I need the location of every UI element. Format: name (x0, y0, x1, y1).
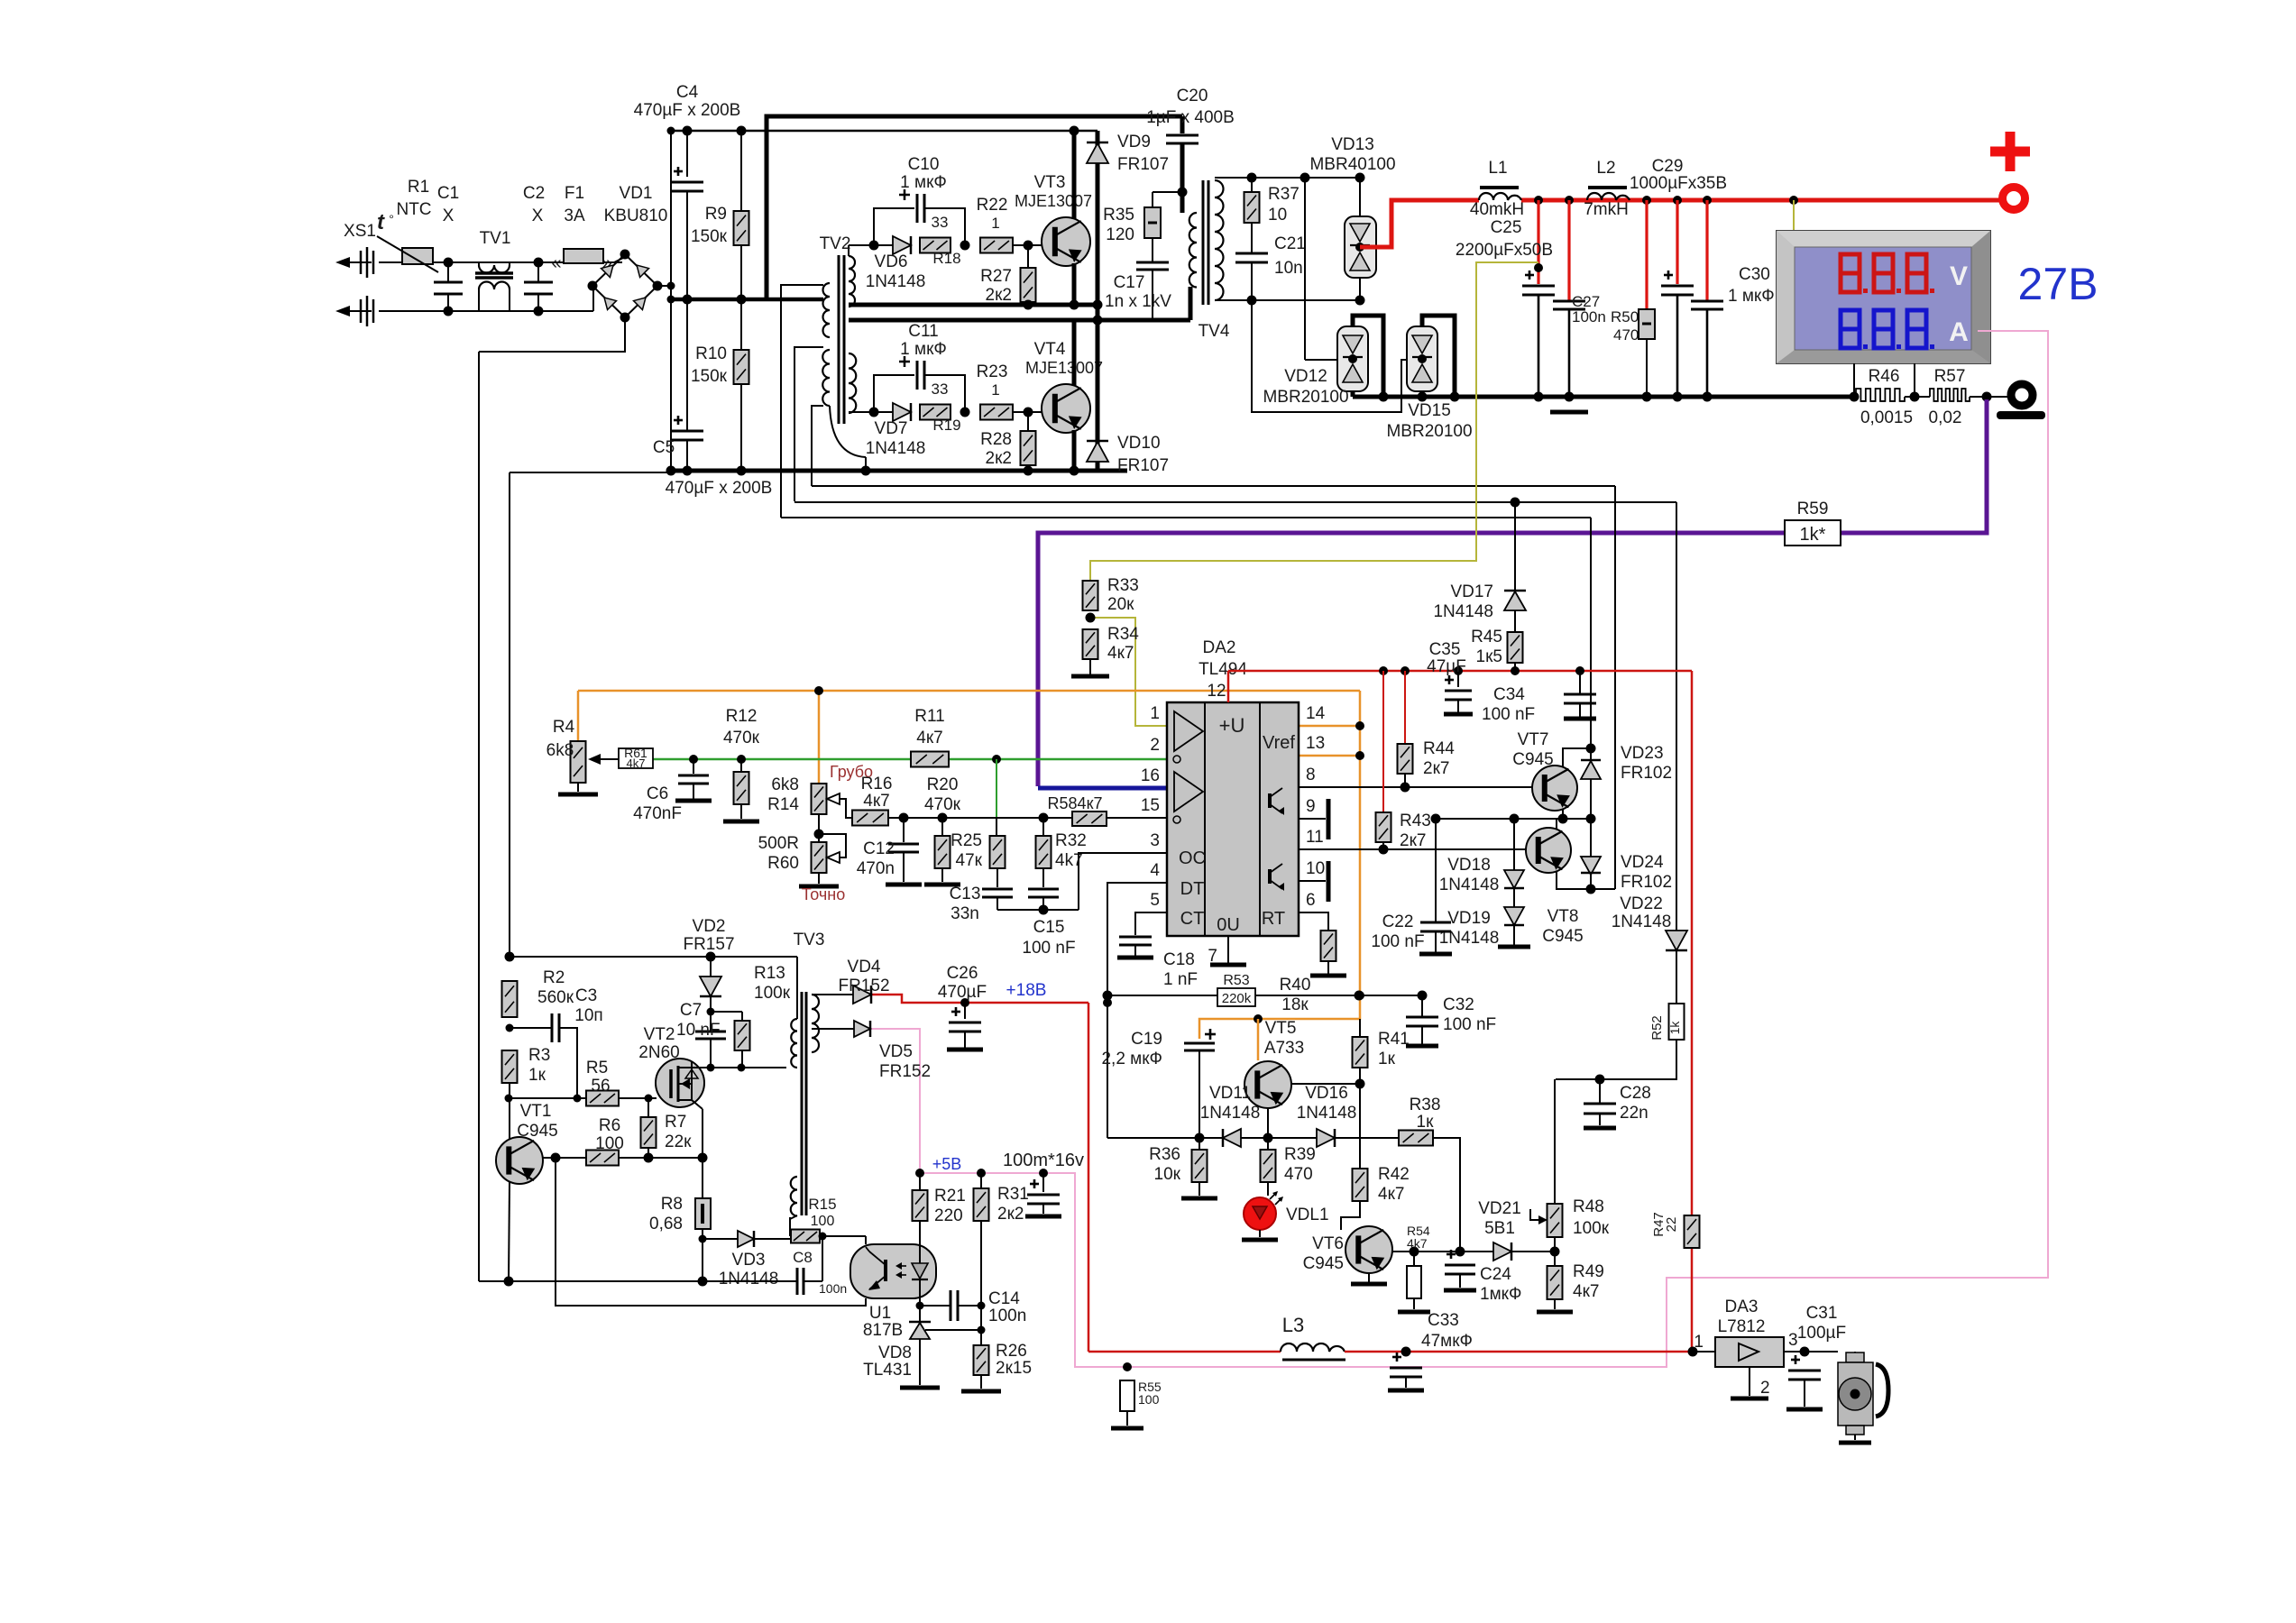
svg-text:XS1: XS1 (344, 222, 376, 241)
svg-text:R18: R18 (932, 250, 960, 267)
svg-text:VD9: VD9 (1117, 133, 1151, 151)
svg-text:100µF: 100µF (1797, 1324, 1846, 1343)
svg-text:C17: C17 (1114, 273, 1145, 292)
svg-text:1µF x 400B: 1µF x 400B (1146, 108, 1235, 127)
svg-text:C31: C31 (1806, 1304, 1838, 1323)
svg-text:R34: R34 (1107, 625, 1139, 644)
svg-text:220: 220 (934, 1206, 963, 1225)
svg-text:C18: C18 (1163, 950, 1195, 969)
svg-text:C20: C20 (1177, 87, 1208, 105)
svg-text:C13: C13 (950, 885, 981, 903)
svg-text:R59: R59 (1797, 500, 1829, 518)
svg-text:TV2: TV2 (820, 234, 851, 253)
svg-text:10к: 10к (1154, 1165, 1181, 1184)
svg-text:C3: C3 (575, 986, 597, 1005)
svg-text:TL431: TL431 (863, 1361, 912, 1380)
svg-text:C1: C1 (437, 184, 459, 203)
svg-text:R1: R1 (408, 178, 429, 197)
svg-text:VD6: VD6 (875, 252, 908, 271)
svg-text:R33: R33 (1107, 576, 1139, 595)
svg-text:R31: R31 (997, 1185, 1029, 1204)
svg-text:1: 1 (1694, 1333, 1704, 1352)
svg-text:A: A (1949, 317, 1969, 347)
svg-text:VD22: VD22 (1620, 894, 1663, 913)
svg-text:4: 4 (1150, 861, 1160, 880)
svg-text:R22: R22 (977, 196, 1008, 215)
svg-text:100n: 100n (988, 1307, 1026, 1325)
svg-text:4к7: 4к7 (916, 729, 942, 747)
svg-text:OC: OC (1179, 848, 1206, 868)
svg-text:R49: R49 (1573, 1262, 1604, 1281)
svg-text:100n: 100n (819, 1281, 847, 1296)
svg-text:1мкФ: 1мкФ (1480, 1285, 1521, 1304)
svg-text:R8: R8 (661, 1195, 683, 1214)
svg-text:R23: R23 (977, 362, 1008, 381)
svg-text:C19: C19 (1131, 1030, 1162, 1049)
svg-text:VD12: VD12 (1284, 367, 1327, 386)
svg-text:C4: C4 (676, 83, 699, 102)
svg-text:R37: R37 (1268, 185, 1300, 204)
svg-text:2: 2 (1760, 1379, 1770, 1398)
svg-text:1: 1 (991, 215, 999, 232)
svg-text:VD15: VD15 (1408, 401, 1451, 420)
svg-text:VD4: VD4 (848, 958, 881, 977)
svg-text:1к: 1к (1417, 1113, 1435, 1132)
svg-text:1 мкФ: 1 мкФ (900, 340, 947, 359)
svg-text:470: 470 (1613, 326, 1639, 344)
svg-text:4к7: 4к7 (1573, 1282, 1599, 1301)
svg-text:R4: R4 (553, 718, 575, 737)
svg-text:1N4148: 1N4148 (1297, 1104, 1357, 1123)
svg-text:VD1: VD1 (620, 184, 653, 203)
svg-text:Точно: Точно (802, 885, 846, 903)
svg-text:L3: L3 (1282, 1314, 1304, 1336)
svg-text:4к7: 4к7 (1378, 1185, 1404, 1204)
svg-text:C945: C945 (517, 1122, 557, 1141)
svg-text:14: 14 (1306, 704, 1326, 723)
svg-text:R20: R20 (927, 775, 959, 794)
svg-text:13: 13 (1306, 734, 1325, 753)
svg-text:1N4148: 1N4148 (866, 439, 926, 458)
svg-text:C945: C945 (1512, 750, 1553, 769)
svg-text:VT7: VT7 (1518, 730, 1549, 749)
svg-text:2к2: 2к2 (997, 1205, 1024, 1224)
svg-text:KBU810: KBU810 (604, 206, 668, 225)
svg-text:R26: R26 (996, 1342, 1027, 1361)
svg-text:18к: 18к (1281, 995, 1309, 1014)
svg-text:1N4148: 1N4148 (866, 272, 926, 291)
svg-text:R48: R48 (1573, 1197, 1604, 1216)
svg-text:C22: C22 (1382, 912, 1414, 931)
svg-text:DT: DT (1180, 879, 1205, 899)
svg-text:470n: 470n (857, 859, 895, 878)
svg-text:470: 470 (1284, 1165, 1313, 1184)
svg-text:6: 6 (1306, 891, 1316, 910)
svg-text:TL494: TL494 (1199, 660, 1247, 679)
svg-text:R10: R10 (695, 344, 727, 363)
svg-text:4к7: 4к7 (1107, 644, 1134, 663)
svg-text:100n: 100n (1572, 308, 1606, 326)
svg-text:DA3: DA3 (1725, 1297, 1759, 1316)
svg-text:C32: C32 (1443, 995, 1474, 1014)
svg-text:R39: R39 (1284, 1145, 1316, 1164)
svg-text:0,02: 0,02 (1929, 408, 1962, 427)
svg-text:MJE13007: MJE13007 (1015, 192, 1092, 210)
svg-text:Vref: Vref (1263, 733, 1295, 753)
svg-text:8: 8 (1306, 766, 1316, 784)
svg-text:22n: 22n (1620, 1104, 1649, 1123)
svg-text:FR157: FR157 (683, 935, 734, 954)
svg-text:FR102: FR102 (1621, 764, 1672, 783)
svg-text:R46: R46 (1869, 367, 1900, 386)
svg-text:VD24: VD24 (1621, 853, 1664, 872)
svg-text:VD19: VD19 (1447, 909, 1491, 928)
svg-text:R15: R15 (808, 1196, 836, 1213)
svg-text:150к: 150к (691, 227, 728, 246)
svg-text:817B: 817B (863, 1321, 903, 1340)
svg-text:15: 15 (1141, 796, 1160, 815)
svg-text:VD21: VD21 (1478, 1199, 1521, 1218)
svg-text:°: ° (389, 212, 394, 226)
svg-text:47к: 47к (956, 851, 983, 870)
svg-text:C2: C2 (523, 184, 545, 203)
svg-text:470к: 470к (723, 729, 760, 747)
svg-text:VT5: VT5 (1265, 1019, 1297, 1038)
svg-text:33: 33 (932, 381, 949, 398)
svg-text:12: 12 (1207, 682, 1226, 701)
svg-text:4k7: 4k7 (1407, 1236, 1428, 1251)
svg-text:1: 1 (1150, 704, 1160, 723)
svg-text:5: 5 (1150, 891, 1160, 910)
svg-text:VD2: VD2 (693, 917, 726, 936)
svg-text:+U: +U (1219, 714, 1245, 737)
svg-text:VD13: VD13 (1331, 135, 1374, 154)
svg-text:5B1: 5B1 (1484, 1219, 1515, 1238)
svg-text:33: 33 (932, 214, 949, 231)
svg-text:VT1: VT1 (520, 1102, 552, 1121)
svg-text:R42: R42 (1378, 1165, 1410, 1184)
svg-text:C14: C14 (988, 1289, 1020, 1308)
svg-text:27В: 27В (2018, 259, 2099, 309)
svg-text:VDL1: VDL1 (1286, 1206, 1329, 1224)
svg-text:CT: CT (1180, 909, 1205, 929)
svg-text:C6: C6 (647, 784, 668, 803)
svg-text:TV4: TV4 (1199, 322, 1230, 341)
svg-text:3: 3 (1150, 831, 1160, 850)
svg-text:2,2 мкФ: 2,2 мкФ (1101, 1050, 1162, 1068)
svg-text:560к: 560к (537, 988, 574, 1007)
svg-text:NTC: NTC (396, 200, 431, 219)
svg-text:R7: R7 (665, 1113, 686, 1132)
svg-text:R19: R19 (932, 417, 960, 434)
svg-text:1к: 1к (1378, 1050, 1396, 1068)
svg-text:2к15: 2к15 (996, 1359, 1032, 1378)
svg-text:100к: 100к (1573, 1219, 1610, 1238)
svg-text:R36: R36 (1149, 1145, 1180, 1164)
svg-text:FR102: FR102 (1621, 873, 1672, 892)
svg-text:1n x 1kV: 1n x 1kV (1105, 292, 1171, 311)
svg-text:VT8: VT8 (1548, 907, 1579, 926)
svg-text:C945: C945 (1303, 1254, 1344, 1273)
svg-text:+18B: +18B (1006, 981, 1047, 1000)
svg-text:FR152: FR152 (838, 977, 889, 995)
svg-text:1: 1 (991, 381, 999, 399)
svg-text:1 мкФ: 1 мкФ (1728, 287, 1775, 306)
svg-text:VT4: VT4 (1034, 340, 1066, 359)
svg-text:470µF x 200B: 470µF x 200B (634, 101, 741, 120)
svg-text:VD23: VD23 (1621, 744, 1664, 763)
svg-text:2: 2 (1150, 736, 1160, 755)
svg-text:4k7: 4k7 (627, 756, 646, 770)
svg-text:R35: R35 (1103, 206, 1134, 225)
svg-text:2к2: 2к2 (986, 449, 1012, 468)
svg-text:10n: 10n (1274, 259, 1303, 278)
svg-text:9: 9 (1306, 797, 1316, 816)
svg-text:R3: R3 (528, 1046, 550, 1065)
svg-text:R9: R9 (705, 205, 727, 224)
svg-text:R57: R57 (1934, 367, 1966, 386)
svg-text:C8: C8 (793, 1249, 813, 1266)
svg-text:1 мкФ: 1 мкФ (900, 173, 947, 192)
svg-text:FR107: FR107 (1117, 456, 1169, 475)
svg-text:R44: R44 (1423, 739, 1455, 758)
svg-text:0,0015: 0,0015 (1860, 408, 1913, 427)
svg-text:470µF: 470µF (938, 983, 987, 1002)
svg-text:3A: 3A (564, 206, 585, 225)
svg-text:6k8: 6k8 (546, 741, 574, 760)
svg-text:VT2: VT2 (644, 1025, 675, 1044)
svg-text:1N4148: 1N4148 (1200, 1104, 1261, 1123)
svg-text:4к7: 4к7 (863, 792, 889, 811)
svg-text:R41: R41 (1378, 1030, 1410, 1049)
svg-text:C30: C30 (1739, 265, 1770, 284)
svg-text:10 nF: 10 nF (676, 1021, 721, 1040)
svg-text:R38: R38 (1410, 1096, 1441, 1114)
svg-text:56: 56 (591, 1077, 610, 1096)
svg-text:100: 100 (595, 1134, 624, 1153)
svg-text:L1: L1 (1488, 159, 1507, 178)
svg-text:R11: R11 (914, 707, 944, 726)
svg-text:t: t (377, 210, 385, 234)
svg-text:100: 100 (1138, 1392, 1160, 1407)
svg-text:1k: 1k (1667, 1021, 1682, 1035)
svg-text:0,68: 0,68 (649, 1215, 683, 1233)
svg-text:22: 22 (1664, 1217, 1679, 1233)
svg-text:«: « (551, 253, 561, 273)
svg-text:0U: 0U (1217, 915, 1240, 935)
svg-text:C29: C29 (1652, 157, 1684, 176)
svg-text:VD8: VD8 (878, 1343, 912, 1362)
svg-text:1k*: 1k* (1800, 525, 1826, 545)
svg-text:R25: R25 (951, 831, 982, 850)
svg-text:100 nF: 100 nF (1482, 705, 1535, 724)
svg-text:R5: R5 (586, 1059, 608, 1077)
svg-text:C25: C25 (1491, 218, 1522, 237)
svg-text:R40: R40 (1280, 976, 1311, 995)
svg-text:2N60: 2N60 (638, 1043, 679, 1062)
svg-text:1 nF: 1 nF (1163, 970, 1198, 989)
svg-text:220k: 220k (1222, 991, 1252, 1006)
svg-text:C945: C945 (1542, 927, 1583, 946)
svg-text:1000µFx35B: 1000µFx35B (1630, 174, 1727, 193)
svg-text:47µF: 47µF (1427, 657, 1466, 676)
svg-text:33n: 33n (951, 904, 979, 923)
svg-text:1N4148: 1N4148 (1439, 876, 1500, 894)
svg-text:VD17: VD17 (1450, 582, 1493, 601)
svg-text:U1: U1 (869, 1304, 891, 1323)
svg-text:500R: 500R (758, 834, 799, 853)
svg-text:R50: R50 (1611, 308, 1639, 326)
svg-text:100 nF: 100 nF (1443, 1015, 1496, 1034)
svg-text:DA2: DA2 (1203, 638, 1236, 657)
svg-text:10п: 10п (574, 1006, 602, 1025)
svg-text:A733: A733 (1264, 1039, 1304, 1058)
svg-text:470nF: 470nF (633, 804, 682, 823)
svg-text:C33: C33 (1428, 1311, 1459, 1330)
svg-text:C24: C24 (1480, 1265, 1511, 1284)
svg-text:VD5: VD5 (879, 1042, 913, 1061)
svg-text:TV1: TV1 (480, 229, 511, 248)
svg-text:120: 120 (1106, 225, 1134, 244)
svg-text:1N4148: 1N4148 (1612, 912, 1672, 931)
svg-text:2к2: 2к2 (986, 286, 1012, 305)
svg-text:L2: L2 (1596, 159, 1615, 178)
svg-text:V: V (1950, 261, 1968, 291)
svg-text:R27: R27 (980, 267, 1012, 286)
svg-text:R52: R52 (1649, 1015, 1665, 1041)
svg-text:+5B: +5B (932, 1155, 962, 1173)
svg-text:R16: R16 (861, 775, 893, 793)
svg-text:TV3: TV3 (794, 931, 825, 949)
svg-text:100 nF: 100 nF (1022, 939, 1075, 958)
svg-text:C34: C34 (1493, 685, 1525, 704)
svg-text:16: 16 (1141, 766, 1160, 785)
svg-text:R28: R28 (980, 430, 1012, 449)
svg-text:MBR20100: MBR20100 (1263, 388, 1348, 407)
svg-text:C35: C35 (1429, 640, 1461, 659)
svg-text:10: 10 (1306, 859, 1325, 878)
svg-text:VD7: VD7 (875, 419, 908, 438)
svg-text:R2: R2 (543, 968, 565, 987)
svg-text:470к: 470к (924, 795, 961, 814)
svg-text:150к: 150к (691, 367, 728, 386)
svg-text:47мкФ: 47мкФ (1421, 1332, 1473, 1351)
svg-text:R6: R6 (599, 1116, 620, 1135)
svg-text:VD16: VD16 (1305, 1084, 1348, 1103)
svg-text:C28: C28 (1620, 1084, 1651, 1103)
svg-text:R13: R13 (754, 964, 785, 983)
svg-text:R584к7: R584к7 (1048, 794, 1103, 812)
svg-text:11: 11 (1306, 828, 1324, 847)
svg-text:RT: RT (1262, 909, 1285, 929)
svg-text:VD3: VD3 (732, 1251, 766, 1270)
svg-text:R12: R12 (726, 707, 758, 726)
svg-text:1к: 1к (528, 1066, 546, 1085)
svg-text:2200µFx50B: 2200µFx50B (1456, 241, 1553, 260)
svg-text:2к7: 2к7 (1400, 831, 1426, 850)
svg-text:C7: C7 (680, 1001, 702, 1020)
svg-text:L7812: L7812 (1718, 1317, 1766, 1336)
svg-text:MBR40100: MBR40100 (1309, 155, 1395, 174)
svg-text:1N4148: 1N4148 (1433, 602, 1493, 621)
svg-text:C11: C11 (908, 322, 938, 341)
svg-text:470µF x 200B: 470µF x 200B (666, 479, 773, 498)
svg-text:7mkH: 7mkH (1584, 200, 1629, 219)
svg-text:R21: R21 (934, 1187, 966, 1206)
svg-text:6k8: 6k8 (771, 775, 799, 794)
svg-text:C10: C10 (908, 155, 940, 174)
svg-text:C21: C21 (1274, 234, 1306, 253)
svg-text:R60: R60 (767, 854, 799, 873)
svg-text:R43: R43 (1400, 811, 1431, 830)
svg-text:2к7: 2к7 (1423, 759, 1449, 778)
svg-text:R45: R45 (1471, 628, 1502, 646)
svg-text:VD18: VD18 (1447, 856, 1491, 875)
svg-text:20к: 20к (1107, 595, 1134, 614)
svg-text:VD11: VD11 (1209, 1084, 1251, 1103)
svg-text:10: 10 (1268, 206, 1287, 225)
svg-text:22к: 22к (665, 1132, 692, 1151)
svg-text:C15: C15 (1033, 918, 1065, 937)
svg-text:MBR20100: MBR20100 (1386, 422, 1472, 441)
svg-text:100 nF: 100 nF (1371, 932, 1424, 951)
svg-text:VT6: VT6 (1312, 1234, 1344, 1253)
svg-text:40mkH: 40mkH (1470, 200, 1524, 219)
svg-text:100: 100 (811, 1214, 835, 1229)
svg-text:VD10: VD10 (1117, 434, 1161, 453)
svg-text:MJE13007: MJE13007 (1025, 359, 1103, 377)
svg-text:C12: C12 (863, 839, 895, 858)
svg-text:R14: R14 (767, 795, 799, 814)
svg-text:C26: C26 (947, 964, 978, 983)
svg-text:VT3: VT3 (1034, 173, 1066, 192)
svg-text:R53: R53 (1223, 973, 1249, 988)
svg-text:C5: C5 (653, 438, 675, 457)
svg-text:1к5: 1к5 (1476, 647, 1502, 666)
svg-text:100к: 100к (754, 984, 791, 1003)
svg-text:R32: R32 (1055, 831, 1087, 850)
svg-text:100m*16v: 100m*16v (1003, 1151, 1084, 1170)
svg-text:X: X (443, 206, 455, 225)
svg-text:X: X (532, 206, 544, 225)
svg-text:F1: F1 (565, 184, 584, 203)
svg-text:FR107: FR107 (1117, 155, 1169, 174)
svg-text:FR152: FR152 (879, 1062, 931, 1081)
svg-text:1N4148: 1N4148 (719, 1270, 779, 1288)
